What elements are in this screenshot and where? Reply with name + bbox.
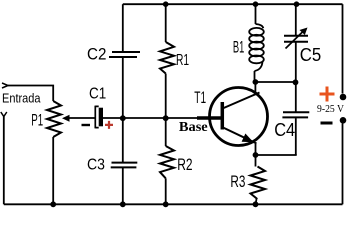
svg-text:C4: C4 — [274, 119, 295, 140]
svg-text:R2: R2 — [177, 155, 192, 174]
svg-text:9-25 V: 9-25 V — [317, 104, 344, 115]
svg-text:T1: T1 — [194, 88, 206, 107]
svg-text:B1: B1 — [233, 38, 244, 57]
svg-text:C3: C3 — [87, 156, 105, 173]
svg-text:R1: R1 — [176, 52, 189, 69]
svg-text:C2: C2 — [87, 45, 106, 63]
svg-text:Entrada: Entrada — [2, 90, 41, 105]
svg-text:R3: R3 — [230, 172, 245, 191]
svg-text:Base: Base — [179, 120, 208, 135]
svg-text:P1: P1 — [31, 111, 43, 130]
svg-text:C1: C1 — [89, 85, 106, 102]
svg-text:C5: C5 — [300, 44, 322, 65]
